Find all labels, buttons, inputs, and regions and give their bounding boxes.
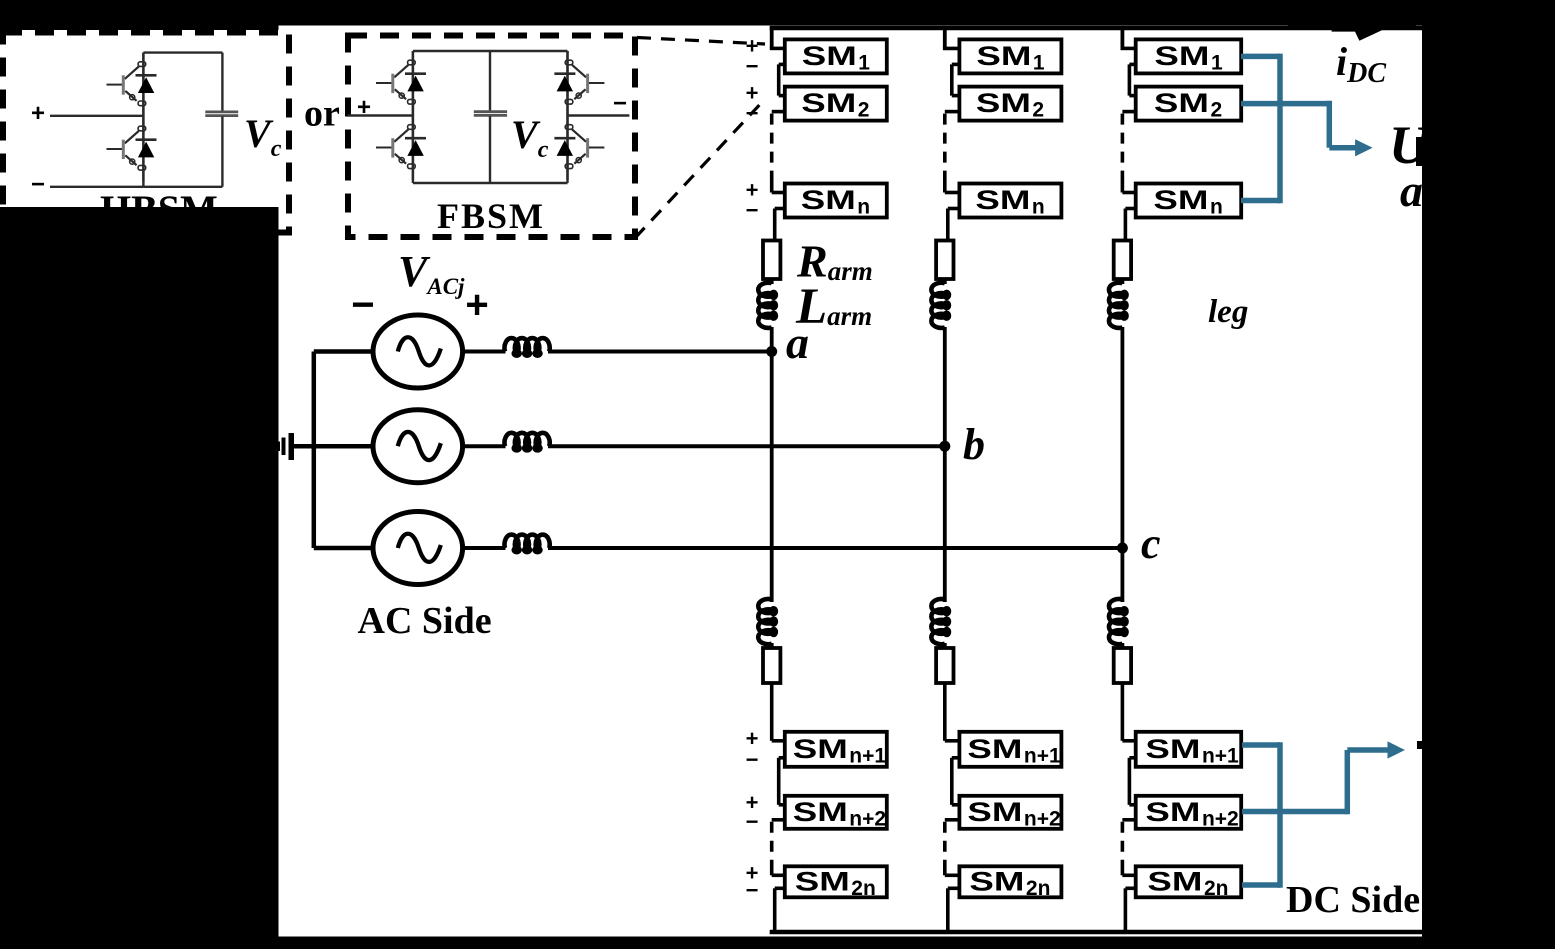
svg-text:1: 1: [858, 51, 870, 74]
svg-text:n+1: n+1: [1202, 744, 1239, 767]
svg-text:−: −: [613, 90, 627, 117]
svg-text:SM: SM: [802, 41, 857, 71]
svg-text:+: +: [357, 94, 371, 121]
svg-text:SM: SM: [967, 734, 1022, 764]
svg-text:−: −: [746, 198, 759, 223]
svg-text:SM: SM: [1154, 41, 1209, 71]
svg-text:n: n: [1032, 196, 1045, 219]
svg-text:1: 1: [1033, 51, 1045, 74]
svg-text:AC Side: AC Side: [358, 600, 492, 642]
svg-text:n+2: n+2: [1024, 807, 1061, 830]
svg-text:2n: 2n: [1204, 877, 1229, 900]
svg-text:2: 2: [1210, 99, 1222, 122]
svg-text:DC Side: DC Side: [1286, 879, 1420, 921]
svg-text:n: n: [1210, 196, 1223, 219]
svg-text:2: 2: [858, 99, 870, 122]
svg-text:or: or: [304, 93, 340, 135]
svg-text:SM: SM: [1145, 797, 1200, 827]
svg-text:FBSM: FBSM: [437, 196, 545, 236]
svg-text:−: −: [31, 171, 45, 198]
svg-text:a: a: [786, 317, 809, 368]
svg-text:2n: 2n: [851, 877, 876, 900]
svg-text:a: a: [1400, 165, 1423, 216]
svg-text:SM: SM: [795, 866, 850, 896]
svg-text:SM: SM: [1153, 185, 1208, 215]
svg-text:2: 2: [1032, 99, 1044, 122]
svg-text:−: −: [746, 809, 759, 834]
svg-text:SM: SM: [793, 734, 848, 764]
svg-text:SM: SM: [1145, 734, 1200, 764]
svg-text:SM: SM: [1147, 866, 1202, 896]
svg-text:SM: SM: [801, 88, 856, 118]
svg-text:SM: SM: [969, 866, 1024, 896]
svg-text:−: −: [746, 101, 759, 126]
svg-text:SM: SM: [793, 797, 848, 827]
svg-text:+: +: [465, 283, 488, 327]
svg-text:−: −: [746, 53, 759, 78]
svg-text:SM: SM: [976, 41, 1031, 71]
svg-text:leg: leg: [1208, 294, 1248, 330]
svg-text:+: +: [31, 100, 45, 127]
svg-text:n+2: n+2: [849, 807, 886, 830]
svg-text:n+1: n+1: [849, 744, 886, 767]
svg-text:−: −: [351, 283, 374, 327]
svg-text:SM: SM: [975, 185, 1030, 215]
svg-text:2n: 2n: [1026, 877, 1051, 900]
svg-text:SM: SM: [967, 797, 1022, 827]
svg-text:n+2: n+2: [1202, 807, 1239, 830]
svg-text:c: c: [1141, 519, 1161, 568]
svg-text:SM: SM: [801, 185, 856, 215]
svg-text:SM: SM: [1154, 88, 1209, 118]
svg-text:SM: SM: [976, 88, 1031, 118]
svg-text:n: n: [857, 196, 870, 219]
svg-text:−: −: [746, 747, 759, 772]
svg-text:1: 1: [1211, 51, 1223, 74]
svg-text:n+1: n+1: [1024, 744, 1061, 767]
svg-text:−: −: [746, 877, 759, 902]
svg-text:b: b: [963, 420, 985, 469]
